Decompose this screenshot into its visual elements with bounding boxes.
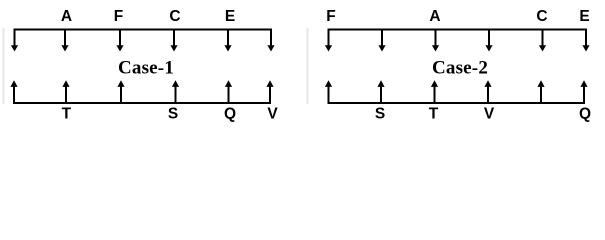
svg-text:Q: Q: [224, 105, 236, 122]
svg-text:T: T: [62, 105, 72, 122]
svg-text:A: A: [61, 8, 72, 25]
svg-text:S: S: [375, 105, 385, 122]
svg-text:S: S: [168, 105, 178, 122]
svg-text:C: C: [536, 8, 547, 25]
svg-text:Q: Q: [579, 105, 591, 122]
svg-text:T: T: [429, 105, 439, 122]
svg-text:F: F: [326, 8, 335, 25]
svg-text:Case-1: Case-1: [118, 58, 174, 79]
svg-text:V: V: [267, 105, 278, 122]
svg-text:E: E: [225, 8, 235, 25]
svg-text:Case-2: Case-2: [432, 58, 488, 79]
svg-text:E: E: [579, 8, 589, 25]
svg-text:F: F: [114, 8, 123, 25]
svg-text:V: V: [484, 105, 495, 122]
svg-text:C: C: [169, 8, 180, 25]
svg-text:A: A: [429, 8, 440, 25]
